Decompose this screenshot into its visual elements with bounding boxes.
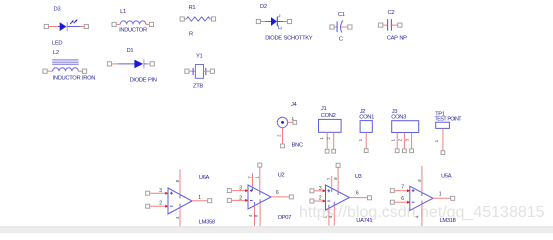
svg-text:UA741: UA741 [356, 218, 372, 224]
plate right [205, 68, 207, 75]
pin 1 pad [451, 196, 455, 200]
wire left red [184, 18, 186, 20]
pin 6 wire [394, 201, 410, 203]
pin 2 arrowhead [245, 199, 248, 202]
svg-text:3: 3 [159, 188, 162, 194]
svg-text:R1: R1 [189, 5, 196, 11]
svg-text:L1: L1 [120, 9, 126, 15]
wire right blue [144, 63, 147, 65]
pin 6 pad [289, 195, 293, 199]
resistor zigzag [186, 17, 210, 21]
triangle body [168, 188, 192, 214]
pin 8 pad top [336, 163, 340, 167]
svg-text:6: 6 [276, 190, 279, 196]
pin 3 arrowhead [245, 189, 248, 192]
pin 8 wire top [337, 167, 339, 191]
svg-text:1: 1 [319, 137, 324, 140]
svg-text:2: 2 [159, 201, 162, 207]
svg-text:8: 8 [333, 177, 338, 180]
svg-text:3: 3 [239, 186, 242, 192]
inductor L1 [112, 9, 154, 34]
op-amp U6A [146, 169, 215, 226]
cap plate right [390, 19, 392, 31]
wire left red [261, 21, 266, 23]
pin 1 inner stub [328, 205, 330, 209]
pin 8 inner stub [179, 195, 181, 199]
svg-text:J1: J1 [321, 106, 327, 112]
resistor R1 [180, 5, 215, 37]
minus mark [170, 205, 173, 207]
wire right red [391, 24, 397, 26]
svg-text:D2: D2 [260, 4, 267, 10]
pin 6 wire [271, 196, 289, 198]
diode D1 [107, 48, 156, 84]
cap plate left [387, 19, 389, 31]
body rect [319, 119, 342, 132]
pin 8 inner stub [421, 193, 423, 197]
minus mark [250, 199, 253, 201]
diode schottky D2 [256, 4, 313, 41]
inductor humps [53, 68, 79, 72]
pin 6 pad [368, 196, 372, 200]
connector J1 [319, 106, 342, 153]
pin 7 wire [252, 173, 254, 187]
pin 1 pad [395, 149, 399, 153]
wire right red [204, 70, 211, 72]
svg-text:DIODE PIN: DIODE PIN [130, 78, 157, 84]
pin 1 wire [442, 128, 444, 151]
pin 2 pad [281, 144, 285, 148]
minus mark [327, 200, 330, 202]
diode triangle [271, 17, 277, 26]
pin 7 wire [394, 190, 410, 192]
pin 1 pad [293, 121, 297, 125]
pin 1 pad [208, 199, 212, 203]
svg-text:Y1: Y1 [196, 54, 203, 60]
iron core line 1 [52, 59, 78, 61]
pin 4 inner stub [421, 201, 423, 205]
svg-text:1: 1 [439, 192, 442, 198]
svg-text:D3: D3 [54, 7, 61, 13]
svg-text:U3: U3 [355, 174, 362, 180]
pin 1 pad top [258, 163, 262, 167]
pin 1 pad [379, 23, 383, 27]
cap plate right curved [340, 20, 342, 32]
pin 2 pad [84, 24, 88, 28]
pin 2 wire [333, 132, 335, 149]
pin 7 inner stub [252, 187, 254, 191]
LED arrow 2 [74, 19, 78, 23]
inductor iron L2 [43, 50, 95, 82]
pin 3 arrowhead [323, 189, 326, 192]
bottom toolbar strip [0, 226, 553, 233]
svg-text:L2: L2 [53, 50, 59, 56]
svg-text:2: 2 [277, 134, 282, 137]
pin 1 pad [441, 151, 445, 155]
LED arrow 1 [70, 20, 74, 24]
pin 1 wire [396, 133, 398, 150]
pin 2 arrowhead [165, 205, 168, 208]
svg-text:3: 3 [319, 186, 322, 192]
crystal body rect [195, 65, 203, 79]
pin 6 pad [390, 200, 394, 204]
inductor humps [120, 21, 146, 25]
svg-text:INDUCTOR IRON: INDUCTOR IRON [53, 75, 96, 81]
pin 2 pad [403, 149, 407, 153]
svg-text:4: 4 [248, 214, 253, 217]
pin 7 pad [390, 189, 394, 193]
svg-text:6: 6 [356, 190, 359, 196]
triangle body [248, 185, 271, 209]
pin 8 wire [179, 169, 181, 194]
wire left red [189, 70, 195, 72]
plus mark [250, 189, 253, 192]
svg-text:CON2: CON2 [321, 113, 336, 119]
pin 1 inner stub [259, 191, 261, 195]
svg-text:1: 1 [390, 138, 395, 141]
svg-text:U6A: U6A [199, 175, 210, 181]
svg-text:BNC: BNC [292, 143, 303, 149]
pin 1 wire [288, 121, 293, 123]
svg-text:4: 4 [175, 216, 180, 219]
svg-text:8: 8 [175, 179, 180, 182]
svg-text:ZTB: ZTB [193, 83, 203, 89]
pin 4 wire [179, 208, 181, 227]
BNC connector J4 [277, 102, 303, 149]
pin 3 wire [231, 190, 248, 192]
op-amp U5A [390, 166, 455, 226]
cathode bar [143, 59, 145, 68]
connector J3 [390, 109, 418, 153]
pin 4 inner stub [179, 204, 181, 208]
svg-text:7: 7 [327, 177, 332, 180]
pin 1 pad [185, 69, 189, 73]
pin 8 wire [259, 203, 261, 226]
pin 1 pad [330, 25, 334, 29]
svg-text:C1: C1 [338, 12, 345, 18]
pin 2 pad [227, 198, 231, 202]
pin 2 pad [211, 17, 215, 21]
svg-text:CAP NP: CAP NP [387, 35, 407, 41]
schottky bottom hook [277, 26, 281, 29]
pin 2 pad [146, 204, 150, 208]
wire right red [80, 26, 85, 28]
svg-text:INDUCTOR: INDUCTOR [119, 28, 147, 34]
pin 2 wire [403, 133, 405, 150]
svg-text:R: R [189, 31, 193, 37]
pin 2 pad [310, 199, 314, 203]
svg-text:CON3: CON3 [391, 115, 406, 121]
pin 4 inner stub [254, 202, 256, 206]
minus mark [412, 201, 415, 203]
pin 2 pad [149, 22, 153, 26]
plus mark [170, 192, 173, 195]
pin 1 pad [325, 149, 329, 153]
pin 8 inner stub [259, 199, 261, 203]
pin 2 pad [332, 149, 336, 153]
svg-text:CON1: CON1 [359, 115, 374, 121]
svg-text:6: 6 [401, 196, 404, 202]
svg-text:C: C [339, 37, 343, 43]
connector J2 [358, 109, 374, 152]
op-amp U3 [310, 163, 373, 225]
pin 1 pad [256, 19, 260, 23]
pin 2 wire [150, 205, 168, 207]
plus mark [412, 189, 415, 192]
pin 4 wire [421, 204, 423, 226]
svg-text:8: 8 [417, 179, 422, 182]
wire left red [48, 26, 58, 28]
svg-text:7: 7 [401, 185, 404, 191]
body rect [436, 122, 450, 128]
schottky top hook [277, 14, 280, 16]
pin 1 wire [328, 208, 330, 225]
pin 3 pad [410, 149, 414, 153]
pin 6 arrowhead [407, 201, 410, 204]
svg-text:7: 7 [247, 176, 252, 179]
pin 7 wire [331, 176, 333, 188]
pin 1 wire top [259, 167, 261, 191]
diode triangle [60, 22, 67, 31]
svg-text:LED: LED [52, 40, 62, 46]
pin 7 arrowhead [407, 189, 410, 192]
svg-text:2: 2 [397, 138, 402, 141]
body rect [360, 121, 372, 133]
pin 2 pad [348, 25, 352, 29]
wire right red [210, 18, 211, 20]
wire right red [146, 23, 150, 25]
wire right blue [67, 26, 79, 28]
wire left red [116, 23, 120, 25]
test point TP1 [434, 112, 462, 155]
plate left [192, 68, 194, 75]
pin 2 pad [150, 62, 154, 66]
pin 2 arrowhead [323, 200, 326, 203]
cathode bar [66, 22, 68, 31]
pin 3 wire [150, 192, 168, 194]
pin 1 pad [44, 24, 48, 28]
schottky cathode bar [276, 17, 278, 27]
pin 2 wire [231, 199, 248, 201]
cap plate left [336, 21, 338, 32]
pin 2 wire [314, 200, 326, 202]
pin 7 inner stub [331, 188, 333, 192]
pin 1 pad [112, 22, 116, 26]
triangle body [326, 185, 350, 210]
pin 3 arrowhead [165, 192, 168, 195]
pin 1 wire [365, 132, 367, 148]
svg-text:2: 2 [239, 195, 242, 201]
pin 2 pad [398, 23, 402, 27]
pin 3 wire [314, 190, 326, 192]
svg-text:1: 1 [198, 195, 201, 201]
svg-text:TEST POINT: TEST POINT [435, 117, 463, 123]
wire left red [383, 24, 388, 26]
pin 1 wire [326, 132, 328, 149]
pin 2 pad [287, 19, 291, 23]
svg-text:1: 1 [358, 138, 363, 141]
pin 1 pad [43, 69, 47, 73]
wire right red [341, 26, 348, 28]
pin 1 pad [364, 149, 368, 153]
svg-text:LM318: LM318 [440, 218, 456, 224]
pin 4 inner stub [333, 202, 335, 206]
capacitor C2 [379, 10, 408, 41]
svg-text:U2: U2 [278, 173, 285, 179]
plus mark [327, 189, 330, 192]
triangle body [410, 186, 433, 210]
BNC center dot [281, 121, 284, 124]
LED D3 [44, 7, 88, 47]
wire left red [47, 70, 53, 72]
iron core line 2 [52, 61, 78, 63]
pin 3 pad [227, 189, 231, 193]
pin 1 wire [192, 200, 208, 202]
wire left red [334, 26, 337, 28]
svg-text:DIODE SCHOTTKY: DIODE SCHOTTKY [265, 35, 313, 41]
pin 8 wire [421, 166, 423, 193]
pin 2 pad [83, 69, 87, 73]
pin 6 wire [350, 197, 368, 199]
pin 1 wire [433, 197, 451, 199]
pin 1 pad [180, 17, 184, 21]
pin 4 wire [254, 206, 256, 226]
diode triangle [134, 60, 143, 69]
svg-text:3: 3 [405, 138, 410, 141]
svg-text:D1: D1 [127, 48, 134, 54]
pin 2 pad [210, 69, 214, 73]
pin 3 pad [310, 189, 314, 193]
pin 8 inner stub [337, 192, 339, 196]
pin 3 wire [411, 133, 413, 150]
wire right red [283, 21, 287, 23]
wire left blue [265, 21, 271, 23]
wire left blue [58, 26, 60, 28]
svg-text:2: 2 [319, 196, 322, 202]
op-amp U2 [227, 163, 293, 226]
svg-text:J4: J4 [291, 102, 298, 108]
iron core line 3 [52, 63, 78, 65]
pin 2 wire [282, 128, 284, 145]
svg-text:OP07: OP07 [278, 215, 292, 221]
body rect [392, 121, 419, 133]
wire right blue [277, 21, 283, 23]
crystal Y1 [185, 54, 215, 90]
svg-text:1: 1 [255, 176, 260, 179]
pin 3 pad [146, 191, 150, 195]
wire right red [78, 70, 82, 72]
svg-text:C2: C2 [388, 10, 395, 16]
wire left red [112, 63, 119, 65]
wire right red [146, 63, 150, 65]
svg-text:LM358: LM358 [199, 219, 215, 225]
capacitor C1 [330, 12, 352, 42]
BNC outer circle [277, 117, 287, 127]
pin 1 pad [107, 62, 111, 66]
wire left blue [118, 63, 135, 65]
pin 4 wire [333, 205, 335, 225]
svg-text:U5A: U5A [441, 173, 452, 179]
svg-text:1: 1 [434, 139, 439, 142]
